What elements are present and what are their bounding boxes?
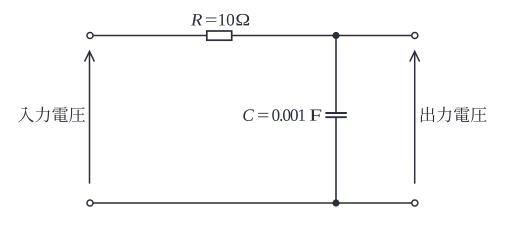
- resistor R: [207, 31, 232, 40]
- wire: capacitor branch upper: [335, 36, 337, 113]
- wire: top rail, input terminal to resistor: [93, 35, 207, 37]
- terminal: output bottom: [412, 200, 418, 206]
- wire: top rail, resistor to output terminal: [231, 35, 411, 37]
- arrow: input voltage: [85, 51, 95, 183]
- capacitor C: [325, 113, 346, 117]
- label: input voltage 入力電圧: [18, 107, 85, 123]
- arrow: output voltage: [410, 51, 420, 183]
- label: output voltage 出力電圧: [421, 107, 487, 123]
- junction node: top (capacitor tap): [332, 32, 339, 39]
- terminal: input bottom: [87, 200, 93, 206]
- terminal: output top: [412, 32, 418, 38]
- value label: C = 0.001 F: [243, 109, 321, 121]
- junction node: bottom: [332, 199, 339, 206]
- wire: capacitor branch lower: [335, 118, 337, 203]
- terminal: input top: [87, 32, 93, 38]
- value label: R = 10 ohm: [191, 14, 249, 26]
- wire: bottom rail: [93, 202, 411, 204]
